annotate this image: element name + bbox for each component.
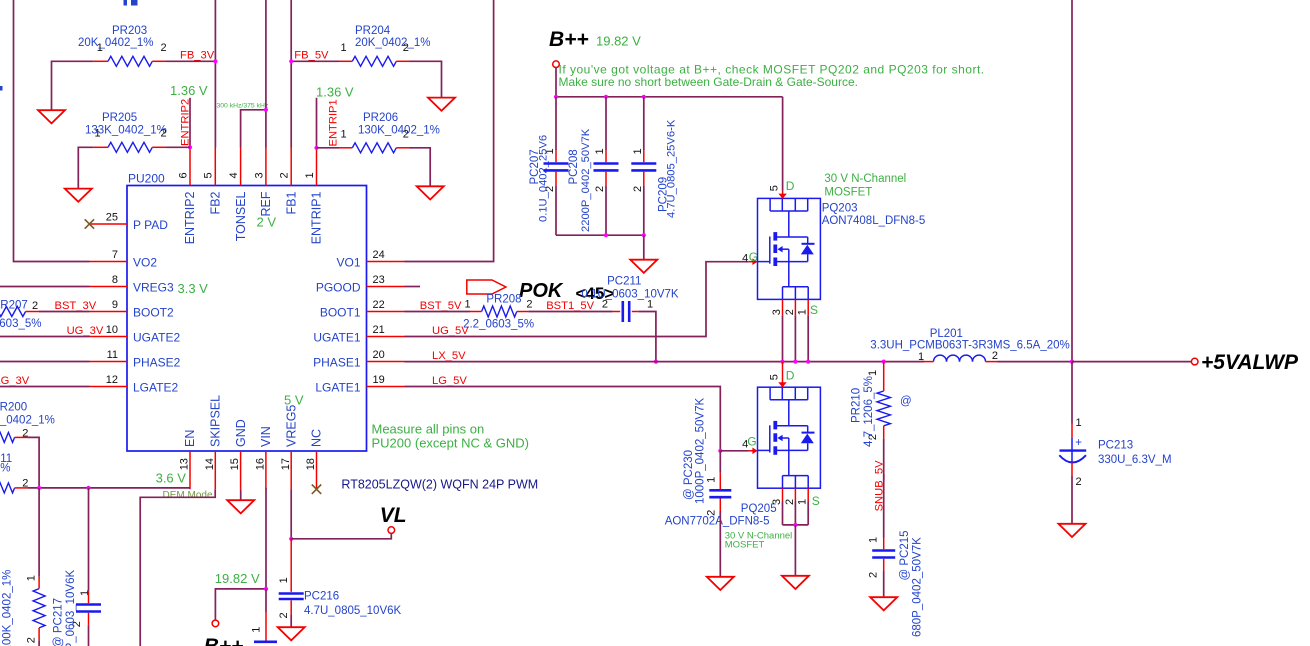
svg-text:1.36 V: 1.36 V <box>170 83 208 98</box>
pin 21 UGATE1 <box>313 324 404 345</box>
wire PL201 to output node <box>998 361 1073 363</box>
svg-text:2: 2 <box>1076 476 1082 488</box>
svg-text:GND: GND <box>234 419 248 447</box>
node bottom bus junction PC209 <box>642 233 646 237</box>
no-connect X on pin 18 NC <box>312 485 321 494</box>
node B++ junction PC209 <box>642 95 646 99</box>
capacitor PC211 <box>581 276 679 323</box>
svg-text:PC211: PC211 <box>607 276 641 288</box>
sheet reference <45> <box>576 284 615 303</box>
net label POK <box>519 280 564 302</box>
net label FB_5V <box>294 50 329 62</box>
wire VO1 to top edge <box>405 0 494 262</box>
capacitor PC215 <box>868 530 924 637</box>
pin 2 FB1 <box>279 148 299 215</box>
wire ENTRIP2 vertical <box>189 98 191 148</box>
pin 18 NC <box>305 429 324 489</box>
net label LX_5V <box>432 350 466 362</box>
svg-text:VO1: VO1 <box>336 256 360 270</box>
svg-text:VIN: VIN <box>259 426 273 447</box>
wire UGATE2 to left edge <box>0 336 90 338</box>
wire B++ bus horizontal <box>556 96 783 98</box>
resistor PR208 <box>463 294 534 331</box>
transistor PQ203 (30V N-ch MOSFET) <box>758 198 821 299</box>
svg-text:22: 22 <box>373 299 385 311</box>
svg-text:2: 2 <box>784 309 796 315</box>
pin 1 ENTRIP1 <box>304 148 324 245</box>
svg-text:TONSEL: TONSEL <box>234 191 248 241</box>
svg-text:1: 1 <box>867 370 879 376</box>
resistor PR205 <box>85 112 167 152</box>
svg-text:330U_6.3V_M: 330U_6.3V_M <box>1098 454 1172 466</box>
svg-text:3.3UH_PCMB063T-3R3MS_6.5A_20%: 3.3UH_PCMB063T-3R3MS_6.5A_20% <box>870 340 1069 352</box>
ground (PQ205 source) <box>782 576 809 589</box>
annotation 19.82 V (VIN) <box>215 571 260 586</box>
annotation 3.6 V (EN) <box>156 470 187 485</box>
svg-text:FB_3V: FB_3V <box>180 50 215 62</box>
annotation 2 V (REF) <box>257 215 277 230</box>
wire PQ205 source to ground <box>794 525 796 576</box>
wire FB1 column to top edge <box>290 0 292 61</box>
net label LG_5V <box>432 375 467 387</box>
svg-text:16: 16 <box>255 458 267 470</box>
node LX/PR210 junction <box>882 360 886 364</box>
svg-text:4.7U_0805_25V6-K: 4.7U_0805_25V6-K <box>666 119 678 218</box>
note check MOSFET text <box>559 63 985 89</box>
wire VL net <box>291 534 391 539</box>
svg-text:3.3 V: 3.3 V <box>178 281 209 296</box>
port POK pentagon <box>467 280 506 294</box>
ground (PC213) <box>1059 524 1086 537</box>
svg-text:14: 14 <box>204 458 216 470</box>
pin 5 D PQ205 drain arrow <box>769 362 795 388</box>
wire EN node down to resistor PR212 <box>38 488 40 577</box>
svg-text:0.1U_0402_25V6: 0.1U_0402_25V6 <box>538 135 550 222</box>
svg-text:0.1U_0603_10V7K: 0.1U_0603_10V7K <box>581 289 679 301</box>
capacitor PC230 <box>683 398 731 516</box>
resistor PR211 (clipped at left edge) <box>0 453 28 493</box>
svg-text:6: 6 <box>177 172 189 178</box>
node B++ junction PC208 <box>604 95 608 99</box>
pin 4 TONSEL <box>228 148 248 242</box>
node bottom bus junction PC208 <box>604 233 608 237</box>
node TONSEL/REF junction <box>264 108 268 112</box>
pin 20 PHASE1 <box>313 349 404 370</box>
net label ENTRIP1 with 1.36 V annotation <box>316 85 354 147</box>
wire PC217 to bottom edge <box>88 625 90 646</box>
svg-text:UG_3V: UG_3V <box>67 325 104 337</box>
svg-text:2: 2 <box>868 572 880 578</box>
wire PQ205 source bus <box>783 524 809 526</box>
svg-text:BOOT1: BOOT1 <box>320 306 361 320</box>
net label SNUB_5V <box>873 460 885 512</box>
svg-text:5: 5 <box>769 374 781 380</box>
svg-text:DEM Mode: DEM Mode <box>163 490 213 501</box>
svg-text:BOOT2: BOOT2 <box>133 306 174 320</box>
terminal circle VL <box>388 527 395 534</box>
node EN junction A <box>37 486 41 490</box>
svg-text:18: 18 <box>305 458 317 470</box>
pins 3 2 1 S PQ203 source <box>771 299 818 361</box>
wire PC215 to ground <box>883 571 885 597</box>
pin 9 BOOT2 <box>90 299 175 320</box>
wire UGATE1 to PQ203 gate <box>405 262 749 337</box>
wire bottom bus to ground <box>643 235 645 260</box>
svg-text:2: 2 <box>160 128 166 140</box>
svg-text:2.2_0603_5%: 2.2_0603_5% <box>463 319 534 331</box>
ground (PR203) <box>38 110 65 123</box>
wire LX_5V horizontal <box>405 361 925 363</box>
svg-text:UGATE1: UGATE1 <box>313 331 360 345</box>
annotation 3.3 V (VREG3) <box>178 281 209 296</box>
resistor PR200 (clipped at left edge) <box>0 401 55 442</box>
wire FB_3V node down to pin FB2 <box>214 61 216 147</box>
svg-text:2: 2 <box>279 172 291 178</box>
svg-text:1: 1 <box>465 298 471 310</box>
svg-text:LGATE1: LGATE1 <box>315 381 360 395</box>
svg-text:MOSFET: MOSFET <box>725 540 765 551</box>
svg-text:300 kHz/375 kHz: 300 kHz/375 kHz <box>217 103 269 110</box>
wire B++ bus down to PQ203 drain <box>782 97 784 191</box>
svg-text:S: S <box>810 303 818 317</box>
part type RT8205 label <box>341 478 538 492</box>
ground (PC230) <box>707 577 734 590</box>
svg-text:REF: REF <box>259 191 273 216</box>
wire SKIPSEL down-left-down <box>140 489 215 646</box>
svg-text:19: 19 <box>373 374 385 386</box>
wire PR204 pin2 to ground <box>410 61 442 97</box>
ground (input caps) <box>630 260 657 273</box>
capacitor PC217 <box>53 570 102 646</box>
pin 16 VIN <box>255 426 274 489</box>
svg-text:2: 2 <box>602 298 608 310</box>
node ENTRIP2 junction <box>188 145 192 149</box>
svg-text:3: 3 <box>771 309 783 315</box>
net label LG_3V (clipped) <box>0 375 30 387</box>
wire PC211 to LX node <box>638 312 656 362</box>
pin 22 BOOT1 <box>320 299 405 320</box>
pin 15 GND <box>229 419 248 489</box>
wire EN net horizontal <box>27 487 190 489</box>
annotation DEM Mode <box>163 490 213 501</box>
wire FB2 column to top edge <box>214 0 216 61</box>
wire PC216 to ground <box>290 615 292 627</box>
svg-text:MOSFET: MOSFET <box>824 187 872 199</box>
svg-text:ENTRIP1: ENTRIP1 <box>328 99 340 146</box>
svg-text:24: 24 <box>373 249 385 261</box>
svg-text:PC216: PC216 <box>304 590 339 602</box>
node FB_3V junction <box>213 59 217 63</box>
wire PR210 to PC215 <box>883 439 885 538</box>
label VL <box>380 504 407 527</box>
svg-text:1: 1 <box>706 477 718 483</box>
svg-text:1: 1 <box>278 577 290 583</box>
wire gate junction to PQ205 gate <box>720 450 748 452</box>
svg-text:13: 13 <box>179 458 191 470</box>
svg-text:Make sure no short between Gat: Make sure no short between Gate-Drain & … <box>559 75 858 89</box>
net label BST1_5V <box>546 300 594 312</box>
svg-text:5: 5 <box>769 185 781 191</box>
svg-text:%: % <box>0 463 10 475</box>
svg-text:BST_5V: BST_5V <box>420 300 462 312</box>
wire BOOT1 to PR208 <box>405 311 471 313</box>
node EN junction B <box>86 486 90 490</box>
node LX junctions at PQ203 source <box>780 360 810 364</box>
pin 17 VREG5 <box>280 405 299 490</box>
svg-text:2 V: 2 V <box>257 215 277 230</box>
wire PGOOD to port <box>405 286 421 288</box>
wire PC230 to ground <box>719 511 721 577</box>
node PC211/LX junction <box>654 360 658 364</box>
svg-text:2200P_0402_50V7K: 2200P_0402_50V7K <box>580 128 592 232</box>
wire PR205 pin1 to ground <box>78 147 93 188</box>
svg-text:PL201: PL201 <box>930 328 963 340</box>
svg-text:2: 2 <box>26 637 38 643</box>
wire +5VALWP column to top edge <box>1071 0 1073 362</box>
svg-text:19.82 V: 19.82 V <box>596 34 641 49</box>
svg-text:2: 2 <box>992 350 998 362</box>
wire input caps bottom bus <box>556 234 644 236</box>
pin 13 EN <box>179 430 198 490</box>
svg-text:P PAD: P PAD <box>133 218 168 232</box>
wire REF column to top edge <box>265 0 267 110</box>
annotation 300 kHz/375 kHz <box>217 103 269 110</box>
svg-text:4.7_1206_5%: 4.7_1206_5% <box>863 376 875 447</box>
svg-text:PU200 (except NC & GND): PU200 (except NC & GND) <box>372 435 530 450</box>
svg-text:1: 1 <box>94 128 100 140</box>
svg-text:PR208: PR208 <box>486 294 521 306</box>
IC PU200 body <box>127 172 367 452</box>
svg-text:@ PC217: @ PC217 <box>53 598 65 646</box>
svg-text:FB2: FB2 <box>209 191 223 214</box>
resistor PR207 (clipped at left edge) <box>0 299 41 330</box>
resistor PR206 <box>339 112 440 153</box>
svg-text:19.82 V: 19.82 V <box>215 571 260 586</box>
wire PR205 pin2 to ENTRIP2 <box>166 146 190 148</box>
svg-text:PR206: PR206 <box>363 112 398 124</box>
net label +5VALWP <box>1201 351 1299 374</box>
wire FB_5V node down to pin FB1 <box>290 61 292 147</box>
svg-text:UGATE2: UGATE2 <box>133 331 180 345</box>
svg-text:VO2: VO2 <box>133 256 157 270</box>
wire gate junction to PC230 <box>719 451 721 473</box>
terminal circle +5VALWP <box>1191 358 1198 365</box>
label B++ <box>549 28 589 51</box>
transistor PQ205 (30V N-ch MOSFET) <box>758 387 821 488</box>
net label UG_5V <box>432 325 469 337</box>
svg-text:AON7408L_DFN8-5: AON7408L_DFN8-5 <box>822 215 926 227</box>
svg-text:5 V: 5 V <box>284 393 304 408</box>
ground (PR206) <box>417 186 444 199</box>
wire LGATE2 to left edge <box>0 386 90 388</box>
clipped text at top edge <box>124 0 138 6</box>
svg-text:1: 1 <box>647 298 653 310</box>
svg-text:130K_0402_1%: 130K_0402_1% <box>358 125 440 137</box>
net label BST_3V <box>55 300 97 312</box>
node PQ205 source junction <box>793 523 797 527</box>
svg-text:2: 2 <box>706 510 718 516</box>
pin 8 VREG3 <box>90 274 175 295</box>
capacitor PC208 <box>568 97 619 235</box>
svg-text:1: 1 <box>304 172 316 178</box>
svg-text:PGOOD: PGOOD <box>316 281 361 295</box>
node VIN junction <box>264 587 268 591</box>
svg-text:PR210: PR210 <box>851 388 863 423</box>
wire ENTRIP1 vertical <box>316 98 318 148</box>
svg-text:11: 11 <box>107 349 118 361</box>
svg-text:LG_5V: LG_5V <box>432 375 467 387</box>
svg-text:30 V N-Channel: 30 V N-Channel <box>824 173 906 185</box>
capacitor PC213 (polarized) <box>1059 417 1171 488</box>
capacitor PC216 <box>278 539 401 619</box>
svg-text:2: 2 <box>526 298 532 310</box>
svg-text:4: 4 <box>228 172 240 178</box>
svg-text:PR204: PR204 <box>355 25 391 37</box>
label PQ203 <box>822 203 926 228</box>
pin 12 LGATE2 <box>90 374 179 395</box>
svg-text:2: 2 <box>632 186 644 192</box>
wire PR207 to BOOT2 <box>39 311 90 313</box>
svg-text:25: 25 <box>106 212 118 224</box>
capacitor plate at bottom edge (clipped) <box>250 627 277 642</box>
svg-text:2: 2 <box>594 186 606 192</box>
annotation @ (PR210) <box>900 396 912 408</box>
wire VREG3 to left edge <box>0 286 90 288</box>
wire REF node to pin REF <box>265 110 267 148</box>
annotation 30V N-Channel MOSFET (PQ205) <box>725 531 793 551</box>
svg-text:D: D <box>786 369 795 383</box>
svg-text:ENTRIP2: ENTRIP2 <box>183 191 197 244</box>
svg-text:FB1: FB1 <box>284 191 298 214</box>
node output junction <box>1070 360 1074 364</box>
svg-text:@ PC215: @ PC215 <box>899 530 911 580</box>
svg-text:9: 9 <box>112 299 118 311</box>
svg-text:20K_0402_1%: 20K_0402_1% <box>355 37 430 49</box>
wire PR200 to EN net corner <box>27 437 39 488</box>
svg-text:@ PC230: @ PC230 <box>683 450 695 500</box>
svg-text:AON7702A_DFN8-5: AON7702A_DFN8-5 <box>665 516 770 528</box>
svg-text:17: 17 <box>280 458 292 470</box>
svg-text:D: D <box>786 179 795 193</box>
wire VIN down <box>265 488 267 589</box>
svg-text:FB_5V: FB_5V <box>294 50 329 62</box>
pin 4 G arrow PQ203 <box>742 250 758 265</box>
label B++ (clipped at bottom edge) <box>204 635 244 646</box>
annotation measure all pins note <box>372 422 530 451</box>
pin 6 ENTRIP2 <box>177 148 197 245</box>
wire TONSEL to REF node <box>241 110 266 148</box>
node VREG5/VL junction <box>289 537 293 541</box>
svg-text:PR200: PR200 <box>0 401 27 413</box>
svg-text:RT8205LZQW(2) WQFN 24P PWM: RT8205LZQW(2) WQFN 24P PWM <box>341 478 538 492</box>
node FB_5V junction <box>289 59 293 63</box>
svg-text:EN: EN <box>183 430 197 447</box>
ground (PR204) <box>428 98 455 111</box>
pin 5 D PQ203 drain arrow <box>769 179 795 199</box>
svg-text:S: S <box>812 494 820 508</box>
ground (PR205) <box>65 189 92 202</box>
svg-text:1: 1 <box>632 148 644 154</box>
svg-text:1: 1 <box>26 575 38 581</box>
svg-text:VREG5: VREG5 <box>284 405 298 447</box>
svg-text:3.6 V: 3.6 V <box>156 470 187 485</box>
pin 25 P PAD <box>90 212 169 233</box>
svg-text:1: 1 <box>1076 417 1082 429</box>
net label FB_3V <box>180 50 215 62</box>
svg-text:1: 1 <box>594 148 606 154</box>
svg-text:PQ203: PQ203 <box>822 203 858 215</box>
svg-text:VREG3: VREG3 <box>133 281 174 295</box>
svg-text:B++: B++ <box>549 28 589 51</box>
svg-text:1.36 V: 1.36 V <box>316 85 354 100</box>
svg-text:1: 1 <box>97 42 103 54</box>
svg-text:PR205: PR205 <box>102 112 137 124</box>
node B++ junction PC207 <box>554 95 558 99</box>
capacitor PC207 <box>529 97 569 235</box>
svg-text:2: 2 <box>160 42 166 54</box>
wire EN node down to capacitor PC217 <box>88 488 90 591</box>
capacitor PC209 <box>631 97 677 235</box>
node LG/gate/PC230 junction <box>718 449 722 453</box>
terminal circle (B+ tap) <box>212 620 219 627</box>
svg-text:10: 10 <box>106 324 118 336</box>
svg-text:PC213: PC213 <box>1098 439 1133 451</box>
pin 4 G arrow PQ205 <box>742 435 757 454</box>
pin 24 VO1 <box>336 249 404 270</box>
svg-text:3: 3 <box>771 499 783 505</box>
net label ENTRIP2 with 1.36 V annotation <box>170 83 208 146</box>
svg-text:UG_5V: UG_5V <box>432 325 469 337</box>
ground (PC215) <box>870 597 897 610</box>
wire PHASE2 to left edge <box>0 361 90 363</box>
net label UG_3V <box>67 325 104 337</box>
pin 10 UGATE2 <box>90 324 181 345</box>
node ENTRIP1 junction <box>314 146 318 150</box>
svg-text:PR203: PR203 <box>112 25 147 37</box>
wire ENTRIP1 to PR206 pin1 <box>317 147 340 149</box>
svg-text:15: 15 <box>229 458 241 470</box>
wire PR203 pin1 to ground <box>52 61 94 110</box>
svg-text:4: 4 <box>742 252 748 264</box>
svg-text:1: 1 <box>797 499 809 505</box>
svg-text:1000P_0402_50V7K: 1000P_0402_50V7K <box>695 398 707 504</box>
wire PR203 pin2 to FB_3V node <box>166 60 215 62</box>
wire PR206 pin2 to ground <box>410 148 431 187</box>
annotation 19.82 V (PC216 top) <box>0 0 1 1</box>
svg-text:2: 2 <box>32 300 38 312</box>
net label BST_5V <box>420 300 462 312</box>
wire PR208 to PC211 <box>528 311 612 313</box>
svg-text:2.2_0603_5%: 2.2_0603_5% <box>0 318 41 330</box>
svg-text:PU200: PU200 <box>128 172 165 186</box>
pin 3 REF <box>253 148 273 217</box>
svg-text:1: 1 <box>797 309 809 315</box>
wire VIN to bottom capacitor <box>265 589 267 641</box>
svg-text:ENTRIP1: ENTRIP1 <box>310 191 324 244</box>
wire PC213 to ground <box>1071 476 1073 524</box>
svg-text:4.7U_0805_10V6K: 4.7U_0805_10V6K <box>304 605 402 617</box>
svg-text:23: 23 <box>373 274 385 286</box>
svg-text:2: 2 <box>278 612 290 618</box>
pin 23 PGOOD <box>316 274 405 295</box>
svg-text:1: 1 <box>340 128 346 140</box>
wire FB_5V node to PR204 pin1 <box>291 60 339 62</box>
svg-text:B++: B++ <box>204 635 244 646</box>
svg-text:+: + <box>1075 437 1082 449</box>
ground (GND pin) <box>227 500 254 513</box>
wire LGATE1 to PQ205 gate <box>405 387 721 451</box>
no-connect X on pin 25 P PAD <box>85 219 94 228</box>
